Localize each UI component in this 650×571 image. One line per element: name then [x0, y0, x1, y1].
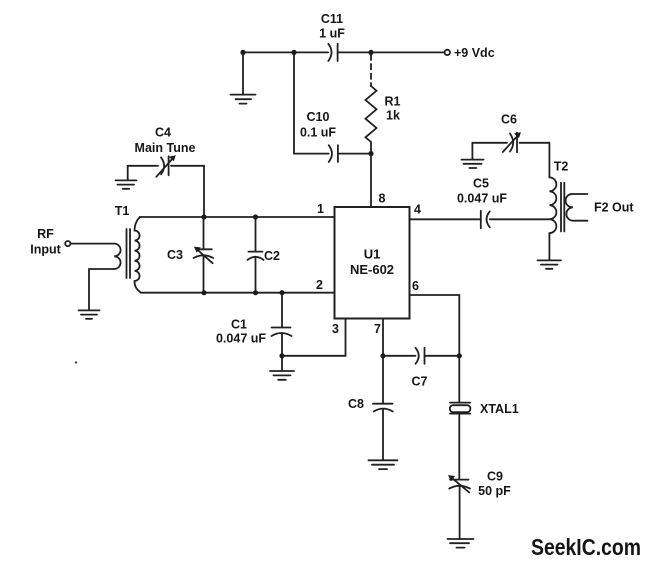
wire: C6 right lead to T2 top	[520, 143, 550, 178]
svg-text:C7: C7	[412, 374, 428, 388]
ground (C6)	[462, 160, 484, 168]
svg-text:C11: C11	[321, 12, 343, 26]
svg-text:0.047 uF: 0.047 uF	[457, 191, 507, 205]
variable capacitor C3	[194, 217, 214, 293]
ground (T2)	[538, 260, 562, 268]
svg-text:2: 2	[316, 278, 323, 292]
svg-text:C2: C2	[264, 249, 280, 263]
node: R1/C10/pin8 junction	[368, 151, 373, 156]
wire: C10 to R1 junction	[338, 153, 371, 155]
capacitor C7	[416, 348, 425, 364]
wire: T1 primary bottom lead	[89, 269, 114, 310]
op-amp/mixer IC U1 box	[335, 207, 410, 319]
crystal XTAL1	[450, 356, 471, 480]
ground (C1)	[270, 371, 294, 380]
wire: +9V top rail right segment	[338, 51, 445, 53]
wire: pin 4 to C5	[410, 218, 481, 220]
node: C3 bottom	[201, 290, 206, 295]
resistor R1	[366, 86, 377, 154]
transformer T2 secondary winding	[566, 194, 588, 221]
wire: C4 ground stub	[127, 166, 129, 180]
capacitor C11	[328, 44, 337, 61]
variable capacitor C4	[156, 155, 176, 177]
variable capacitor C9	[448, 475, 470, 538]
svg-text:7: 7	[374, 322, 381, 336]
svg-text:C3: C3	[167, 248, 183, 262]
wire: dashed drop from rail to R1	[370, 55, 372, 87]
svg-text:4: 4	[414, 202, 421, 216]
wire: pin 7 stub	[382, 319, 384, 356]
node: top-left junction	[240, 50, 245, 55]
wire: C5 to T2	[490, 218, 550, 220]
capacitor C2	[248, 217, 264, 293]
svg-text:C8: C8	[348, 397, 364, 411]
wire: T2 bottom lead	[548, 233, 550, 260]
svg-text:C9: C9	[487, 469, 503, 483]
wire: RF input lead	[71, 243, 115, 245]
svg-text:3: 3	[332, 322, 339, 336]
node: C1/ground junction	[279, 353, 284, 358]
svg-text:C4: C4	[155, 126, 171, 140]
svg-text:1k: 1k	[386, 109, 400, 123]
svg-text:T2: T2	[554, 159, 569, 173]
svg-text:C6: C6	[501, 112, 517, 126]
ground (C4)	[116, 180, 137, 188]
wire: ground stub below C1	[281, 356, 283, 370]
svg-text:8: 8	[379, 191, 386, 205]
wire: pin 6 to crystal branch	[410, 295, 460, 356]
wire: junction to C7	[383, 355, 416, 357]
svg-text:R1: R1	[385, 95, 401, 109]
stray speck	[75, 361, 77, 363]
svg-text:NE-602: NE-602	[350, 262, 394, 277]
svg-text:RF: RF	[37, 227, 54, 241]
svg-text:C10: C10	[307, 110, 330, 124]
svg-text:F2 Out: F2 Out	[594, 200, 634, 214]
svg-text:U1: U1	[364, 247, 381, 262]
svg-text:C5: C5	[473, 176, 489, 190]
svg-text:1: 1	[317, 202, 324, 216]
node: C10 branch junction	[291, 50, 296, 55]
wire: tank bottom rail to pin 2	[141, 292, 335, 294]
wire: C7 to crystal branch	[425, 355, 460, 357]
svg-text:Main Tune: Main Tune	[135, 141, 196, 155]
svg-text:1 uF: 1 uF	[319, 27, 345, 41]
ground (top rail)	[231, 95, 256, 104]
wire: junction to pin 3	[282, 319, 346, 356]
wire: C4 left lead	[128, 165, 158, 167]
ground (C9)	[448, 539, 474, 548]
capacitor C8	[373, 356, 393, 460]
wire: tank top rail to pin 1	[140, 216, 335, 218]
transformer T2 core	[561, 183, 564, 232]
node: C2 bottom	[253, 290, 258, 295]
node: C7/XTAL junction	[457, 353, 462, 358]
transformer T2 primary winding	[549, 177, 556, 233]
ground (T1 primary)	[79, 310, 100, 318]
svg-text:0.1 uF: 0.1 uF	[300, 126, 336, 140]
svg-text:T1: T1	[115, 204, 130, 218]
capacitor C1	[272, 293, 292, 356]
node: pin7/C7/C8 junction	[380, 353, 385, 358]
svg-text:SeekIC.com: SeekIC.com	[531, 534, 641, 560]
wire: C6 ground stub	[471, 143, 473, 159]
svg-text:Input: Input	[30, 242, 61, 256]
wire: C4 right lead down to tank	[171, 166, 204, 217]
transformer T1 primary winding	[114, 244, 120, 269]
capacitor C10	[329, 145, 338, 162]
wire: C10 branch vertical	[294, 52, 329, 153]
node: C3 top	[201, 214, 206, 219]
node: C2 top	[253, 214, 258, 219]
wire: pin 8 feed	[370, 154, 372, 207]
svg-text:+9 Vdc: +9 Vdc	[454, 46, 495, 60]
wire: +9V top rail left segment	[243, 51, 328, 53]
node: C1 top	[279, 290, 284, 295]
transformer T1 core	[127, 229, 131, 278]
wire: C6 left lead	[472, 142, 507, 144]
svg-text:C1: C1	[231, 317, 247, 331]
wire: ground stub from top rail	[242, 52, 244, 94]
capacitor C5	[481, 211, 490, 229]
transformer T1 secondary winding	[135, 217, 142, 293]
svg-text:6: 6	[412, 279, 419, 293]
terminal: RF input circle	[65, 241, 70, 246]
variable capacitor C6	[503, 132, 521, 152]
svg-text:0.047 uF: 0.047 uF	[216, 332, 266, 346]
svg-text:50 pF: 50 pF	[478, 484, 511, 498]
ground (C8)	[369, 460, 398, 469]
svg-text:XTAL1: XTAL1	[480, 402, 519, 416]
terminal: +9 Vdc open circle	[445, 50, 450, 55]
node: R1 top junction	[368, 50, 373, 55]
